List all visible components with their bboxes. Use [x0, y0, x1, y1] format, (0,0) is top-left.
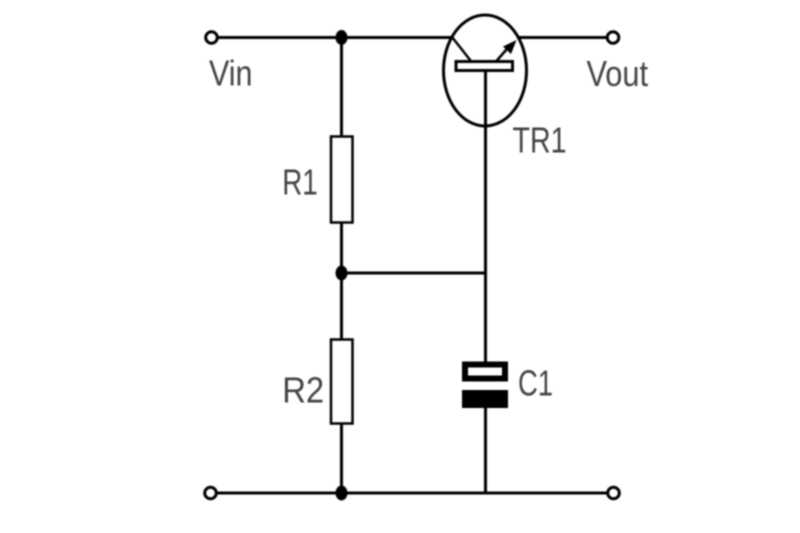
svg-text:TR1: TR1 [513, 120, 567, 161]
svg-text:C1: C1 [518, 363, 553, 404]
svg-text:Vout: Vout [587, 53, 649, 94]
svg-text:Vin: Vin [209, 53, 253, 94]
svg-text:R2: R2 [282, 370, 324, 411]
svg-text:R1: R1 [282, 162, 318, 203]
